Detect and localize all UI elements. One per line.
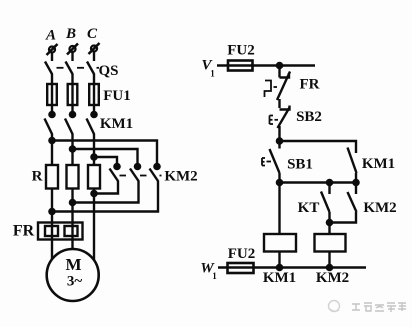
relay contact FR (NC) xyxy=(265,66,291,109)
svg-text:KM1: KM1 xyxy=(100,116,133,132)
wire H1 top bypass A xyxy=(52,141,157,165)
node rail3 right xyxy=(353,180,358,185)
svg-text:KM2: KM2 xyxy=(363,200,396,216)
timer contact KT (NO) xyxy=(321,183,330,223)
resistor R pole C xyxy=(88,165,100,189)
svg-text:SB2: SB2 xyxy=(296,109,322,125)
node V1 label xyxy=(201,58,215,79)
FR heater B xyxy=(65,226,78,236)
coil KM2 xyxy=(315,234,346,252)
wire phase A top xyxy=(51,53,53,62)
contactor KM1 main pole A xyxy=(45,112,55,165)
svg-text:KM2: KM2 xyxy=(316,270,349,286)
thermal relay FR box xyxy=(38,223,83,240)
node W1 label xyxy=(200,261,217,282)
switch QS pole B xyxy=(66,62,73,85)
svg-text:1: 1 xyxy=(212,271,217,281)
node C-R junction xyxy=(91,154,96,159)
watermark logo xyxy=(329,301,340,312)
svg-text:FU2: FU2 xyxy=(228,246,256,262)
svg-text:A: A xyxy=(45,28,56,44)
svg-text:B: B xyxy=(65,26,76,42)
node A below R junction xyxy=(49,209,54,214)
coil KM1 xyxy=(264,234,296,252)
wire coil KM1 to rail xyxy=(278,252,280,268)
pushbutton SB1 (NO) xyxy=(262,141,280,183)
node bottom rail KM1 xyxy=(277,265,282,270)
wire FR to motor A xyxy=(51,240,53,261)
svg-text:FU2: FU2 xyxy=(227,43,255,59)
terminal A xyxy=(47,44,58,55)
svg-text:FU1: FU1 xyxy=(103,88,131,104)
svg-text:R: R xyxy=(32,169,43,185)
svg-text:1: 1 xyxy=(210,69,215,79)
node bottom rail KM2 xyxy=(327,265,332,270)
watermark text xyxy=(352,303,406,312)
node A-R junction xyxy=(49,138,54,143)
contactor KM2 pole 1 xyxy=(94,164,120,194)
wire phase C top xyxy=(93,52,95,62)
terminal C xyxy=(89,43,100,54)
fuse FU1 pole A xyxy=(47,84,57,113)
svg-text:KM1: KM1 xyxy=(263,270,296,286)
contactor contact KM1 aux (NO) xyxy=(348,148,357,183)
wire phase C to motor xyxy=(93,189,95,262)
wire rail3 xyxy=(280,181,357,183)
svg-text:KT: KT xyxy=(298,200,320,216)
switch QS pole C xyxy=(87,62,94,85)
contactor KM2 pole 3 xyxy=(52,164,160,212)
svg-text:KM1: KM1 xyxy=(362,156,395,172)
contactor KM2 pole 2 xyxy=(73,164,141,203)
svg-text:C: C xyxy=(87,26,98,42)
wire H2 top bypass B xyxy=(73,149,138,165)
contactor contact KM2 aux (NO) xyxy=(330,183,357,223)
wire rail2 xyxy=(280,141,357,153)
node B below R junction xyxy=(70,200,75,205)
terminal B xyxy=(67,44,78,55)
node after SB2 xyxy=(277,138,282,143)
svg-text:FR: FR xyxy=(300,77,320,93)
wire phase B to FR xyxy=(71,189,73,240)
node KT-KM2 join xyxy=(327,220,332,225)
QS linkage dashed xyxy=(57,67,100,69)
fuse FU2 bottom xyxy=(228,263,254,273)
wire to coil KM2 xyxy=(328,223,330,235)
fuse FU1 pole C xyxy=(89,84,99,113)
svg-text:FR: FR xyxy=(13,223,35,240)
node C below R junction xyxy=(91,191,96,196)
svg-text:KM2: KM2 xyxy=(164,169,197,185)
wire H3 top bypass C xyxy=(94,157,117,165)
FR heater A xyxy=(45,226,58,236)
pushbutton SB2 (NC) xyxy=(270,106,290,142)
wire top rail xyxy=(217,64,315,66)
fuse FU2 top xyxy=(228,61,253,71)
resistor R pole A xyxy=(46,165,58,189)
contactor KM1 main pole B xyxy=(65,112,75,165)
svg-text:SB1: SB1 xyxy=(287,157,313,173)
wire phase B top xyxy=(71,52,73,61)
KM2 linkage dashed xyxy=(120,175,162,177)
switch QS pole A xyxy=(45,62,52,85)
wire FR to motor B xyxy=(71,240,73,251)
node top rail junction xyxy=(277,63,282,68)
resistor R pole B xyxy=(67,165,79,189)
svg-text:QS: QS xyxy=(98,63,118,79)
contactor KM1 main pole C xyxy=(87,112,97,165)
node rail3 mid xyxy=(327,180,332,185)
wire bottom rail xyxy=(218,266,366,268)
node B-R junction xyxy=(70,146,75,151)
wire to coil KM1 xyxy=(278,183,280,235)
wire phase A to FR xyxy=(51,189,53,240)
node rail3 left xyxy=(277,180,282,185)
fuse FU1 pole B xyxy=(68,84,78,113)
svg-text:M: M xyxy=(65,255,81,274)
svg-text:3~: 3~ xyxy=(67,274,83,290)
motor M circle xyxy=(47,249,99,301)
wire coil KM2 to rail xyxy=(328,252,330,268)
